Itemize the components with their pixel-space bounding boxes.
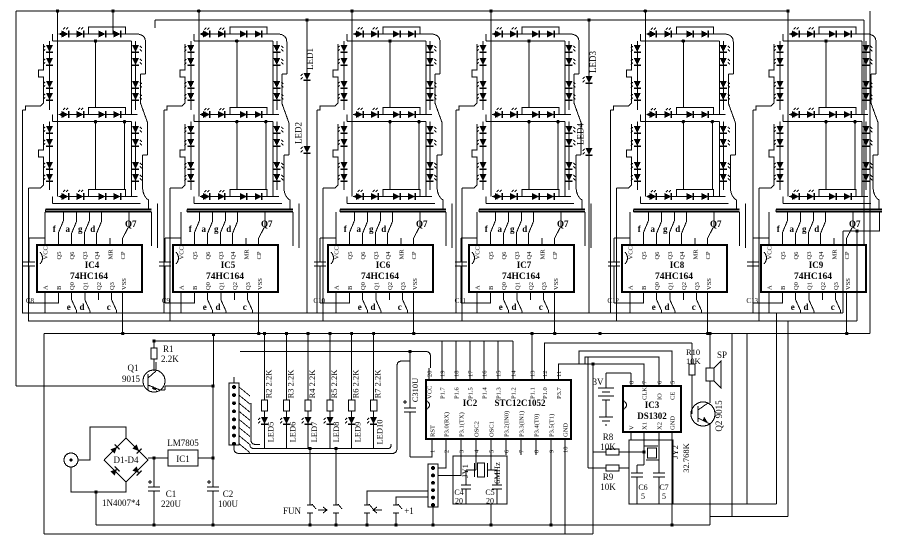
IC4 output letters e d c bbox=[72, 300, 77, 311]
svg-text:C1: C1 bbox=[166, 489, 177, 499]
svg-text:LED5: LED5 bbox=[266, 422, 276, 443]
svg-text:8: 8 bbox=[534, 450, 541, 453]
svg-text:20: 20 bbox=[486, 497, 494, 506]
DS4 segment e bbox=[482, 122, 484, 190]
svg-text:220U: 220U bbox=[161, 499, 182, 509]
svg-text:LED3: LED3 bbox=[588, 51, 598, 73]
svg-text:R2 2.2K: R2 2.2K bbox=[264, 369, 274, 399]
svg-text:d: d bbox=[522, 224, 527, 234]
wire cascade segments bbox=[151, 212, 153, 246]
IC5 Q7 wire bbox=[258, 238, 260, 245]
IC7 VCC wire bbox=[476, 212, 478, 245]
svg-text:c: c bbox=[692, 302, 696, 312]
svg-text:11: 11 bbox=[556, 371, 563, 377]
svg-text:P3.5(T1): P3.5(T1) bbox=[549, 414, 556, 437]
svg-text:e: e bbox=[499, 302, 503, 312]
svg-text:VCC: VCC bbox=[179, 246, 186, 259]
svg-text:Q6: Q6 bbox=[793, 251, 800, 260]
DS2 left tail upper bbox=[163, 110, 165, 313]
svg-text:1N4007*4: 1N4007*4 bbox=[102, 498, 140, 508]
svg-text:Q5: Q5 bbox=[192, 252, 199, 260]
svg-text:Q7: Q7 bbox=[416, 219, 428, 229]
svg-text:g: g bbox=[802, 224, 807, 234]
resistor R8 10K bbox=[593, 451, 606, 453]
DS2 common spine left bbox=[198, 34, 200, 197]
wire AC to bridge bbox=[78, 427, 126, 460]
wire base feed from left border bbox=[16, 385, 143, 387]
DS6 segment d bbox=[789, 196, 868, 198]
DS3 segment f bbox=[343, 41, 345, 110]
DS4 segment c bbox=[568, 122, 570, 190]
svg-text:Q1: Q1 bbox=[807, 282, 814, 290]
shift register IC5 74HC164 bbox=[159, 212, 278, 334]
IC9 Q7 wire bbox=[846, 238, 848, 245]
DS3 bottom bus bbox=[340, 209, 446, 211]
DS6 segment e bbox=[779, 122, 781, 190]
shift register IC6 74HC164 bbox=[313, 212, 433, 334]
crystal JY2 32.768K bbox=[644, 440, 691, 473]
header J2 bbox=[428, 464, 438, 507]
capacitor C2 100U bbox=[212, 458, 214, 487]
svg-text:Q1: Q1 bbox=[515, 282, 522, 290]
wire button verticals bbox=[309, 449, 311, 506]
7-segment LED display DS2 bbox=[164, 27, 293, 321]
DS5 left tail lower bbox=[615, 188, 617, 321]
svg-text:d: d bbox=[664, 302, 669, 312]
wire IC2 port pins to bus bbox=[154, 340, 513, 342]
capacitor C6 5 bbox=[637, 464, 644, 466]
svg-text:R7 2.2K: R7 2.2K bbox=[373, 369, 383, 399]
svg-text:VSS: VSS bbox=[706, 278, 713, 290]
colon wire LED1/LED2 bbox=[306, 20, 308, 313]
IC8 A B input hook bbox=[630, 300, 643, 303]
DS2 segment a bbox=[200, 33, 279, 35]
svg-text:IC4: IC4 bbox=[85, 260, 100, 270]
svg-text:IC2: IC2 bbox=[463, 398, 478, 408]
DS5 segment g bbox=[646, 114, 725, 116]
wire right vertical x864 bbox=[863, 20, 865, 245]
svg-text:Q1: Q1 bbox=[219, 282, 226, 290]
wire bridge to regulator bbox=[148, 457, 168, 459]
svg-text:Q6: Q6 bbox=[69, 251, 76, 260]
wire gnd pin stem bbox=[564, 455, 566, 534]
svg-text:17: 17 bbox=[468, 370, 475, 377]
svg-text:MR: MR bbox=[540, 249, 547, 260]
header J1 bbox=[229, 377, 250, 453]
DS5 common spine left bbox=[644, 34, 646, 197]
IC8 Q7 wire bbox=[707, 238, 709, 245]
IC5 A B input hook bbox=[181, 300, 194, 303]
resistor R6 2.2K bbox=[351, 334, 353, 401]
svg-text:Q3: Q3 bbox=[514, 252, 521, 260]
wire Q2 emitter bbox=[709, 424, 711, 525]
svg-text:d: d bbox=[215, 302, 220, 312]
svg-text:Q5: Q5 bbox=[56, 252, 63, 260]
svg-text:VCC: VCC bbox=[43, 246, 50, 259]
DS3 segment g bbox=[353, 114, 432, 116]
svg-text:20: 20 bbox=[455, 497, 463, 506]
wire nested CE bbox=[579, 351, 672, 377]
push button S4 bbox=[393, 504, 402, 527]
svg-text:Q3: Q3 bbox=[218, 252, 225, 260]
decoupling capacitor C9 bbox=[164, 238, 166, 262]
svg-text:IC1: IC1 bbox=[176, 454, 190, 464]
svg-text:e: e bbox=[652, 302, 656, 312]
wire right riser 732 bbox=[731, 334, 733, 517]
svg-text:g: g bbox=[214, 224, 219, 234]
svg-text:a: a bbox=[650, 224, 655, 234]
svg-text:CP: CP bbox=[705, 251, 712, 259]
7-segment LED display DS4 bbox=[456, 27, 585, 321]
svg-text:Q4: Q4 bbox=[385, 251, 392, 260]
svg-text:IC5: IC5 bbox=[221, 260, 236, 270]
IC9 output letters e d c bbox=[796, 300, 801, 311]
svg-text:a: a bbox=[497, 224, 502, 234]
IC8 output letters e d c bbox=[657, 300, 662, 311]
7-segment LED display DS5 bbox=[610, 27, 739, 321]
DS6 segment f bbox=[779, 41, 781, 110]
resistor R1 2.2K bbox=[151, 348, 157, 359]
LED LED4 bbox=[586, 148, 593, 155]
svg-text:A: A bbox=[179, 285, 186, 290]
IC6 input letters f a g d bbox=[353, 212, 355, 221]
svg-text:C10: C10 bbox=[313, 297, 325, 305]
svg-text:d: d bbox=[370, 302, 375, 312]
microcontroller IC2 STC12C1052 bbox=[426, 368, 571, 455]
svg-text:IC7: IC7 bbox=[517, 260, 532, 270]
DS6 segment g bbox=[789, 114, 868, 116]
svg-text:14: 14 bbox=[511, 370, 518, 377]
DS2 left tail lower bbox=[169, 188, 171, 321]
resistor R3 2.2K bbox=[286, 334, 288, 401]
svg-text:C9: C9 bbox=[162, 297, 171, 305]
DS4 segment a bbox=[492, 33, 571, 35]
LED LED8 bbox=[327, 417, 334, 424]
svg-text:10K: 10K bbox=[686, 356, 702, 366]
LED LED6 bbox=[283, 417, 290, 424]
DS3 left tail upper bbox=[316, 110, 318, 313]
capacitor C1 220U bbox=[153, 458, 155, 487]
wire DS1302 gnd bbox=[671, 440, 673, 525]
svg-text:a: a bbox=[65, 224, 70, 234]
svg-text:Q4: Q4 bbox=[94, 251, 101, 260]
svg-text:R3 2.2K: R3 2.2K bbox=[286, 369, 296, 399]
push button S2 bbox=[333, 504, 342, 527]
svg-text:100U: 100U bbox=[218, 499, 239, 509]
DS1 segment f bbox=[49, 41, 51, 110]
svg-text:Q5: Q5 bbox=[641, 252, 648, 260]
svg-text:Q4: Q4 bbox=[679, 251, 686, 260]
svg-text:CLK: CLK bbox=[642, 387, 649, 400]
svg-text:1: 1 bbox=[430, 450, 437, 453]
DS4 left tail lower bbox=[461, 188, 463, 321]
svg-text:IC6: IC6 bbox=[376, 260, 391, 270]
LED LED10 bbox=[370, 417, 377, 424]
svg-text:A: A bbox=[628, 285, 635, 290]
wire C3 to RST bbox=[410, 455, 432, 457]
IC5 input letters f a g d bbox=[198, 212, 200, 221]
DS3 segment a bbox=[353, 33, 432, 35]
wire right border bbox=[869, 11, 871, 334]
svg-text:74HC164: 74HC164 bbox=[206, 272, 244, 282]
svg-text:CP: CP bbox=[411, 251, 418, 259]
svg-text:MR: MR bbox=[244, 249, 251, 260]
svg-text:Q6: Q6 bbox=[205, 251, 212, 260]
svg-text:VCC: VCC bbox=[628, 246, 635, 259]
DS4 common spine left bbox=[490, 34, 492, 197]
DS1 left tail upper bbox=[22, 110, 24, 313]
LED LED9 bbox=[348, 417, 355, 424]
DS1 left tail lower bbox=[28, 188, 30, 321]
svg-text:SP: SP bbox=[717, 350, 727, 360]
svg-text:e: e bbox=[67, 302, 71, 312]
svg-text:VSS: VSS bbox=[412, 278, 419, 290]
svg-text:P3.0(RX): P3.0(RX) bbox=[444, 412, 451, 437]
svg-text:12: 12 bbox=[542, 371, 549, 378]
svg-text:X1: X1 bbox=[642, 422, 649, 430]
DS2 segment c bbox=[276, 122, 278, 190]
resistor R9 10K bbox=[588, 467, 606, 469]
svg-text:JY1: JY1 bbox=[460, 464, 470, 478]
DS1 segment d bbox=[59, 196, 138, 198]
svg-text:GND: GND bbox=[670, 416, 677, 430]
LED LED5 bbox=[261, 417, 268, 424]
svg-text:Q3: Q3 bbox=[667, 252, 674, 260]
DS4 left tail upper bbox=[455, 110, 457, 313]
svg-text:OSC1: OSC1 bbox=[489, 421, 496, 437]
wire nested IO bbox=[585, 357, 659, 386]
decoupling capacitor C13 bbox=[752, 238, 754, 262]
LED LED7 bbox=[305, 417, 312, 424]
DS2 bottom bus bbox=[187, 209, 293, 211]
DS6 left tail upper bbox=[752, 110, 754, 313]
wire bus y313 bbox=[22, 312, 843, 314]
wire D6 return right side bbox=[843, 212, 880, 231]
svg-text:P3.2(IN0): P3.2(IN0) bbox=[504, 411, 511, 437]
IC4 input letters f a g d bbox=[62, 212, 64, 221]
IC7 Q7 wire bbox=[554, 238, 556, 245]
svg-text:Q7: Q7 bbox=[261, 219, 273, 229]
svg-text:Q6: Q6 bbox=[654, 251, 661, 260]
IC7 input letters f a g d bbox=[494, 212, 496, 221]
svg-text:Q1: Q1 bbox=[128, 363, 139, 373]
svg-text:Q0: Q0 bbox=[501, 282, 508, 290]
bridge rectifier D1-D4 bbox=[102, 438, 148, 508]
IC9 input letters f a g d bbox=[786, 212, 788, 221]
wire Q1 emitter bbox=[160, 389, 165, 391]
DS2 segment b bbox=[276, 41, 278, 110]
IC5 output letters e d c bbox=[208, 300, 213, 311]
resistor R7 2.2K bbox=[373, 334, 375, 401]
capacitor C7 5 bbox=[658, 465, 660, 473]
svg-text:R8: R8 bbox=[603, 432, 614, 442]
svg-text:74HC164: 74HC164 bbox=[361, 272, 399, 282]
wire gnd rail bbox=[96, 524, 710, 526]
wire right riser 776 bbox=[776, 313, 778, 504]
DS1 common spine left bbox=[57, 34, 59, 197]
LED LED1 bbox=[304, 73, 311, 80]
svg-text:B: B bbox=[56, 285, 63, 290]
DS6 bottom bus bbox=[776, 209, 882, 211]
svg-text:CP: CP bbox=[844, 251, 851, 259]
svg-text:Q3: Q3 bbox=[400, 282, 407, 290]
svg-text:C13: C13 bbox=[746, 297, 758, 305]
shift register IC4 74HC164 bbox=[23, 212, 142, 334]
svg-text:VCC: VCC bbox=[427, 386, 434, 399]
DS5 segment c bbox=[722, 122, 724, 190]
svg-text:Q1: Q1 bbox=[374, 282, 381, 290]
IC6 VCC wire bbox=[335, 212, 337, 245]
svg-text:Q3: Q3 bbox=[806, 252, 813, 260]
colon wire LED3/LED4 bbox=[588, 20, 590, 313]
svg-text:Q4: Q4 bbox=[818, 251, 825, 260]
resistor R5 2.2K bbox=[329, 334, 331, 401]
wire header fan collector bbox=[250, 403, 252, 440]
svg-text:A: A bbox=[334, 285, 341, 290]
svg-text:B: B bbox=[488, 285, 495, 290]
svg-text:Q1: Q1 bbox=[83, 282, 90, 290]
shift register IC7 74HC164 bbox=[455, 212, 574, 334]
svg-text:c: c bbox=[831, 302, 835, 312]
svg-text:LED8: LED8 bbox=[331, 422, 341, 443]
svg-text:Q2: Q2 bbox=[387, 282, 394, 290]
speaker SP bbox=[706, 350, 727, 388]
svg-text:VSS: VSS bbox=[845, 278, 852, 290]
DS3 segment b bbox=[429, 41, 431, 110]
svg-text:3V: 3V bbox=[593, 377, 605, 387]
7-segment LED display DS3 bbox=[317, 27, 446, 321]
svg-text:32.768K: 32.768K bbox=[681, 442, 691, 472]
svg-text:IC8: IC8 bbox=[670, 260, 685, 270]
svg-text:9: 9 bbox=[549, 450, 556, 453]
DS6 segment b bbox=[865, 41, 867, 110]
resistor R2 2.2K bbox=[264, 334, 266, 401]
svg-text:74HC164: 74HC164 bbox=[70, 272, 108, 282]
DS5 left tail upper bbox=[609, 110, 611, 313]
IC8 VCC wire bbox=[629, 212, 631, 245]
svg-text:Q3: Q3 bbox=[694, 282, 701, 290]
svg-text:d: d bbox=[226, 224, 231, 234]
svg-text:OSC2: OSC2 bbox=[474, 421, 481, 437]
svg-text:CP: CP bbox=[256, 251, 263, 259]
wire extra drop D1 bbox=[112, 11, 114, 34]
svg-text:Q6: Q6 bbox=[360, 251, 367, 260]
wire pin11 nested bbox=[559, 364, 645, 377]
svg-text:D1-D4: D1-D4 bbox=[114, 455, 139, 465]
IC4 A B input hook bbox=[45, 300, 58, 303]
svg-text:LED1: LED1 bbox=[305, 48, 315, 70]
svg-text:VSS: VSS bbox=[121, 278, 128, 290]
svg-text:IO: IO bbox=[657, 393, 664, 400]
DS2 segment f bbox=[190, 41, 192, 110]
svg-text:c: c bbox=[107, 302, 111, 312]
wire IC2 pins to J2 bbox=[438, 455, 446, 468]
svg-text:d: d bbox=[675, 224, 680, 234]
svg-text:g: g bbox=[663, 224, 668, 234]
svg-text:+1: +1 bbox=[404, 506, 414, 516]
DS4 segment d bbox=[492, 196, 571, 198]
svg-text:20: 20 bbox=[427, 371, 434, 378]
svg-text:VCC: VCC bbox=[334, 246, 341, 259]
7-segment LED display DS1 bbox=[23, 27, 152, 321]
RTC IC3 DS1302 bbox=[623, 377, 681, 440]
svg-text:Q2: Q2 bbox=[681, 282, 688, 290]
svg-text:16: 16 bbox=[482, 370, 489, 377]
wire pin12 to R10 net bbox=[545, 343, 693, 368]
svg-text:LM7805: LM7805 bbox=[167, 438, 199, 448]
svg-text:d: d bbox=[803, 302, 808, 312]
svg-text:LED10: LED10 bbox=[375, 419, 385, 444]
svg-text:DS1302: DS1302 bbox=[637, 411, 667, 421]
transistor Q1 9015 bbox=[122, 363, 165, 392]
svg-text:P3.1(TX): P3.1(TX) bbox=[459, 412, 466, 437]
svg-text:B: B bbox=[192, 285, 199, 290]
svg-text:LED9: LED9 bbox=[353, 422, 363, 443]
wire top bus 2 bbox=[155, 19, 864, 21]
wire pin13 up bbox=[531, 334, 533, 369]
regulator IC1 LM7805 bbox=[168, 450, 198, 466]
IC6 A B input hook bbox=[336, 300, 349, 303]
svg-text:R1: R1 bbox=[163, 344, 174, 354]
svg-text:10K: 10K bbox=[600, 482, 616, 492]
svg-text:d: d bbox=[814, 224, 819, 234]
svg-text:Q0: Q0 bbox=[654, 282, 661, 290]
DS6 segment a bbox=[789, 33, 868, 35]
svg-text:Q2: Q2 bbox=[96, 282, 103, 290]
capacitor C3 10U bbox=[409, 352, 411, 409]
svg-text:a: a bbox=[789, 224, 794, 234]
svg-text:g: g bbox=[78, 224, 83, 234]
svg-text:X2: X2 bbox=[657, 422, 664, 430]
wire +5 riser bbox=[213, 335, 215, 387]
DS3 segment d bbox=[353, 196, 432, 198]
capacitor C5 20 bbox=[491, 469, 497, 471]
svg-text:Q3: Q3 bbox=[109, 282, 116, 290]
svg-text:LED6: LED6 bbox=[288, 422, 298, 443]
DS3 segment e bbox=[343, 122, 345, 190]
svg-text:C2: C2 bbox=[223, 489, 234, 499]
svg-text:A: A bbox=[767, 285, 774, 290]
svg-text:g: g bbox=[510, 224, 515, 234]
svg-text:Q7: Q7 bbox=[557, 219, 569, 229]
svg-text:P1.7: P1.7 bbox=[440, 387, 447, 399]
svg-text:Q0: Q0 bbox=[205, 282, 212, 290]
svg-text:VSS: VSS bbox=[257, 278, 264, 290]
wire R8 R9 stems bbox=[587, 357, 589, 468]
svg-text:a: a bbox=[356, 224, 361, 234]
svg-text:IC9: IC9 bbox=[809, 260, 824, 270]
svg-text:R4 2.2K: R4 2.2K bbox=[307, 369, 317, 399]
DS6 left tail lower bbox=[758, 188, 760, 321]
svg-text:VCC: VCC bbox=[475, 246, 482, 259]
IC9 A B input hook bbox=[769, 300, 782, 303]
svg-text:e: e bbox=[791, 302, 795, 312]
svg-text:d: d bbox=[90, 224, 95, 234]
wire speaker to Q2 bbox=[709, 381, 711, 403]
svg-text:C6: C6 bbox=[638, 483, 647, 492]
IC6 output letters e d c bbox=[363, 300, 368, 311]
IC7 A B input hook bbox=[477, 300, 490, 303]
wire pin9 stem bbox=[550, 455, 552, 525]
svg-text:Q6: Q6 bbox=[501, 251, 508, 260]
wire right riser 747 bbox=[746, 334, 748, 505]
svg-text:STC12C1052: STC12C1052 bbox=[494, 398, 546, 408]
DS6 segment c bbox=[865, 122, 867, 190]
resistor R10 10K bbox=[691, 343, 693, 364]
DS6 common spine left bbox=[787, 34, 789, 197]
svg-text:Q0: Q0 bbox=[360, 282, 367, 290]
crystal circuit JY2 box bbox=[629, 440, 673, 504]
